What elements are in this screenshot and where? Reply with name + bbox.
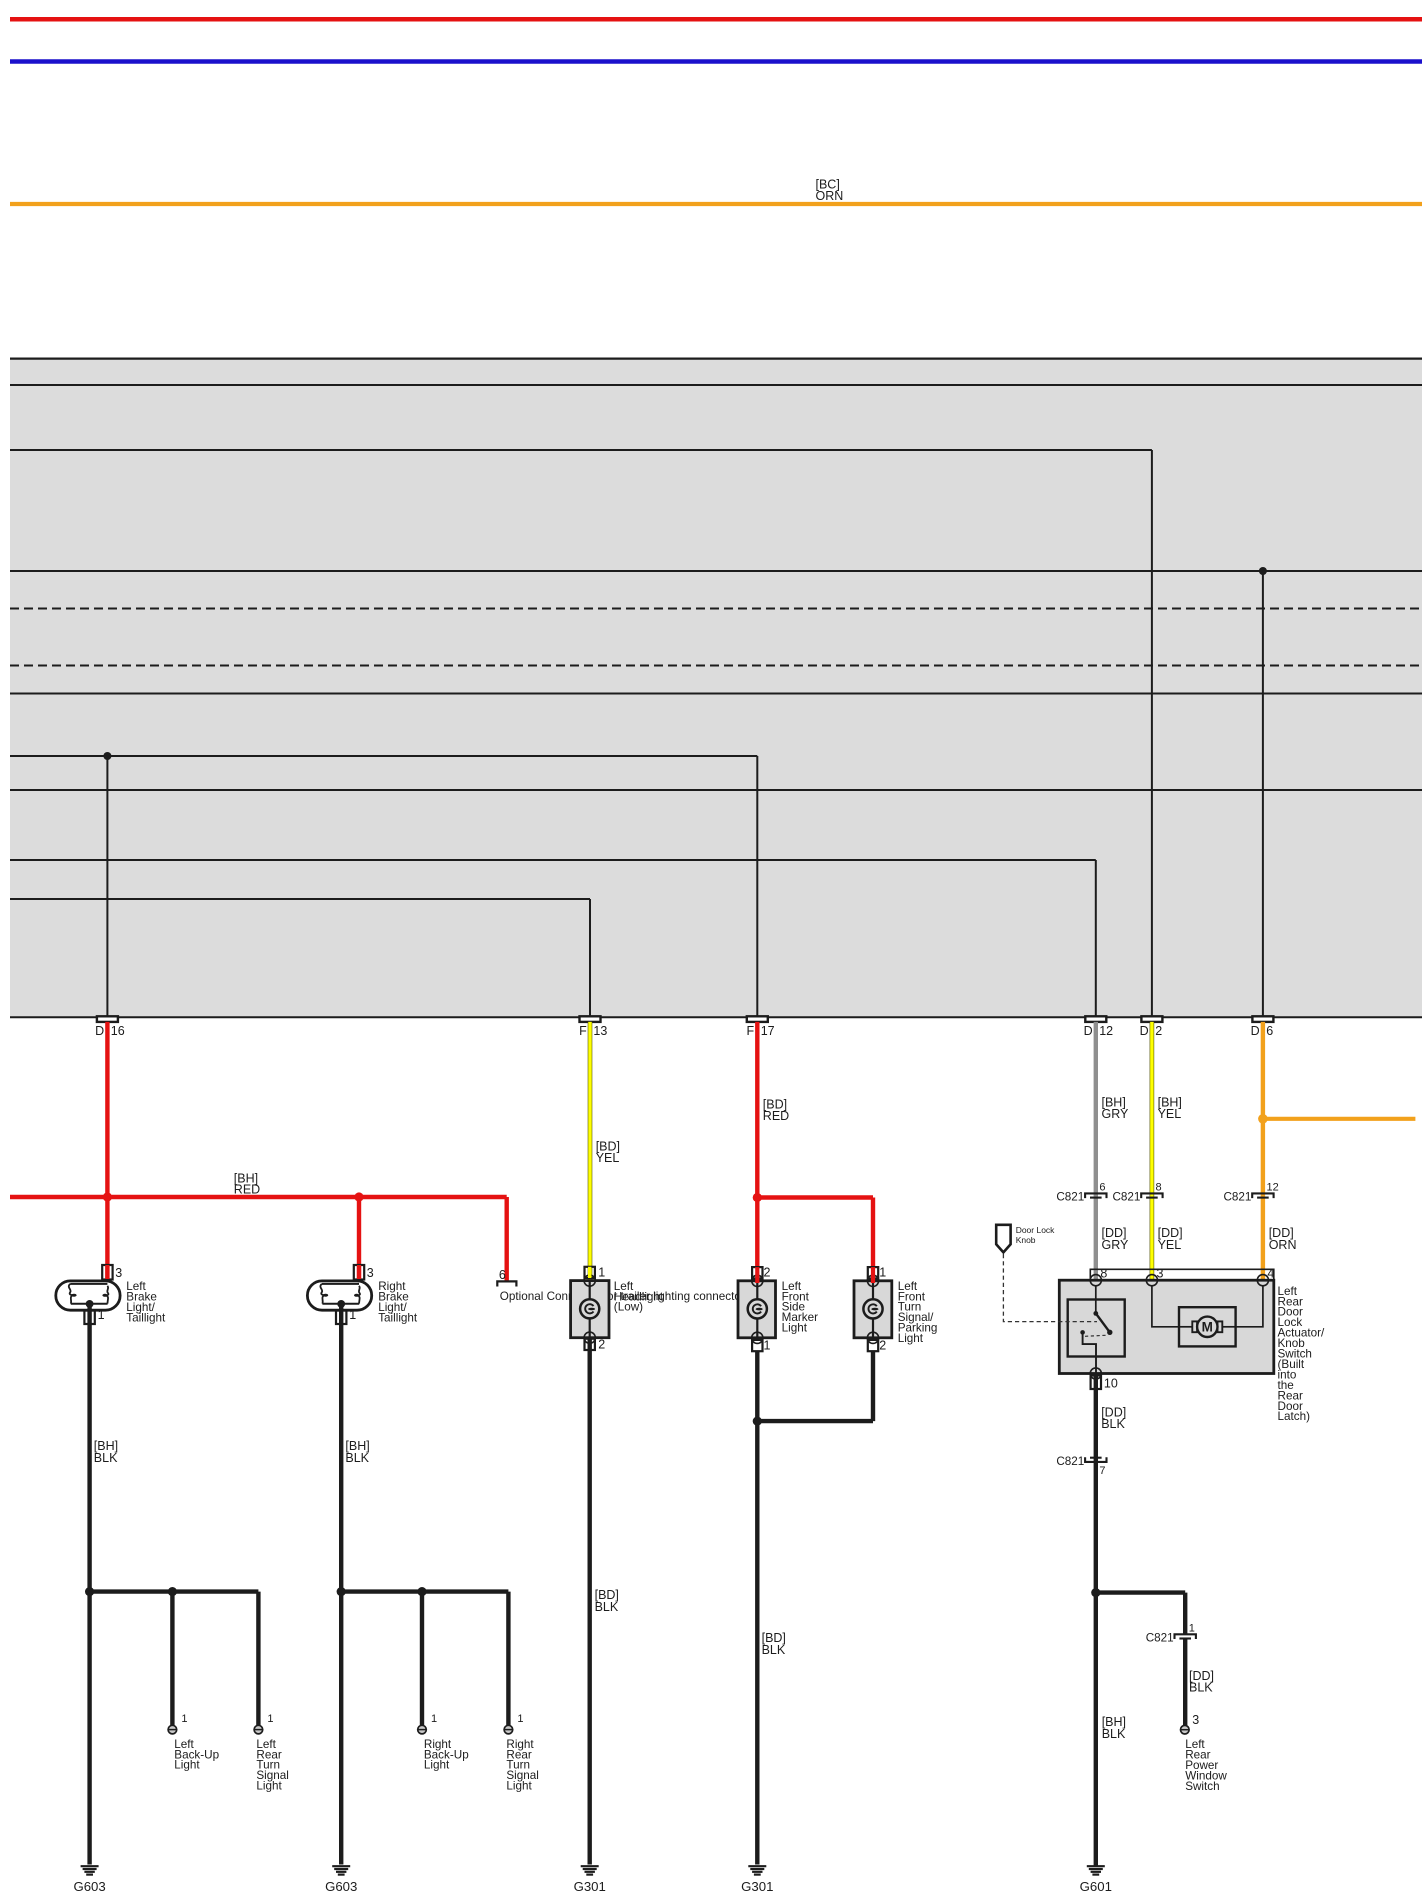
svg-text:1: 1 — [181, 1713, 187, 1725]
svg-text:7: 7 — [1099, 1465, 1105, 1477]
optional connector bracket — [497, 1268, 516, 1287]
svg-text:1: 1 — [1189, 1622, 1195, 1634]
junction red F17 — [753, 1193, 762, 1202]
net label [BD] YEL — [596, 1139, 620, 1165]
terminal left back-up light — [168, 1725, 177, 1734]
net label [BH] GRY — [1102, 1096, 1130, 1122]
wire black turn signal — [871, 1351, 875, 1421]
connector D6 — [1251, 1016, 1274, 1038]
bulb side marker — [748, 1299, 767, 1318]
wire pin3 to motor — [1152, 1286, 1179, 1327]
junction red at right brake — [354, 1192, 363, 1201]
wire yellow from F13 — [588, 1022, 593, 1280]
wire red to right brake light — [357, 1197, 361, 1286]
svg-text:Light: Light — [174, 1759, 200, 1772]
svg-text:1: 1 — [431, 1713, 437, 1725]
pin 3 right brake — [354, 1265, 364, 1280]
wire black window switch — [1183, 1639, 1187, 1726]
wire to F13 — [589, 899, 591, 1016]
wire band L2 — [10, 449, 1152, 451]
wire black right brake pin1 — [339, 1304, 343, 1865]
bulb turn signal — [863, 1299, 882, 1318]
junction band D6 — [1259, 567, 1267, 575]
net label [DD] BLK pin10 — [1101, 1406, 1126, 1432]
junction left back-up — [168, 1587, 177, 1596]
component door lock actuator box — [1059, 1280, 1274, 1373]
switch blade tip — [1107, 1330, 1112, 1335]
svg-text:2: 2 — [1155, 1024, 1162, 1038]
wire orange from D6 — [1261, 1022, 1265, 1280]
pin 2 side marker — [752, 1267, 762, 1278]
wire to right rear turn — [506, 1592, 510, 1726]
wire orange bus top — [10, 202, 1422, 206]
junction black right tree — [337, 1587, 346, 1596]
svg-text:1: 1 — [98, 1308, 105, 1322]
wire to right back-up light — [420, 1592, 424, 1726]
svg-text:RED: RED — [234, 1183, 260, 1197]
wire gray from D12 — [1094, 1022, 1098, 1280]
net label [BH] BLK left — [94, 1439, 118, 1465]
connector C821 pin8 — [1112, 1182, 1162, 1204]
ground G301 marker — [741, 1866, 773, 1894]
optional connector text — [500, 1290, 745, 1303]
wire band L4 dashed — [10, 608, 1422, 610]
svg-text:BLK: BLK — [1102, 1727, 1126, 1741]
component left headlight box — [571, 1281, 609, 1338]
svg-text:Knob: Knob — [1016, 1235, 1036, 1245]
svg-text:1: 1 — [879, 1265, 886, 1279]
lamp left brake light/taillight — [56, 1281, 120, 1310]
svg-text:6: 6 — [1266, 1024, 1273, 1038]
connector C821 pin7 — [1056, 1455, 1106, 1477]
svg-text:Light: Light — [898, 1332, 924, 1345]
connector D2 — [1140, 1016, 1163, 1038]
svg-text:YEL: YEL — [596, 1151, 620, 1165]
switch alternate position dashed — [1085, 1335, 1108, 1336]
svg-text:1: 1 — [598, 1265, 605, 1279]
svg-text:M: M — [1202, 1320, 1213, 1335]
svg-text:17: 17 — [761, 1024, 775, 1038]
wire red to turn signal pin1 — [871, 1198, 875, 1268]
net label [BH] BLK right — [345, 1439, 369, 1465]
terminal right rear turn signal light — [504, 1725, 513, 1734]
component turn signal label — [898, 1280, 938, 1345]
actuator connector strip — [1090, 1269, 1274, 1280]
svg-text:2: 2 — [764, 1265, 771, 1279]
terminal left rear turn signal light — [254, 1725, 263, 1734]
svg-text:ORN: ORN — [1269, 1238, 1297, 1252]
svg-text:D: D — [1084, 1024, 1093, 1038]
net label [BD] BLK headlight — [595, 1588, 619, 1614]
connector D12 — [1084, 1016, 1114, 1038]
pin 3 wire red — [105, 1265, 109, 1279]
knob linkage dashed — [1003, 1254, 1097, 1322]
svg-text:12: 12 — [1099, 1024, 1113, 1038]
svg-text:BLK: BLK — [762, 1643, 786, 1657]
wire black marker join — [757, 1419, 873, 1423]
pin 3 cavity — [1146, 1275, 1157, 1286]
connector C821 pin6 — [1056, 1182, 1106, 1204]
cavity bottom headlight — [584, 1332, 595, 1343]
cavity bottom turn signal — [867, 1332, 878, 1343]
svg-text:G603: G603 — [325, 1879, 357, 1894]
wire black branch to window switch — [1096, 1590, 1185, 1594]
svg-text:Light: Light — [782, 1322, 808, 1335]
svg-text:Latch): Latch) — [1278, 1410, 1311, 1423]
junction red at left brake — [103, 1192, 112, 1201]
net label [BH] BLK g601 — [1102, 1715, 1126, 1741]
connector F17 — [746, 1016, 774, 1038]
wire orange branch — [1263, 1117, 1416, 1121]
wire black side marker — [755, 1351, 759, 1864]
component side marker label — [782, 1280, 818, 1335]
wire band L7 — [10, 755, 757, 757]
svg-text:G603: G603 — [73, 1879, 105, 1894]
wire to D12 — [1095, 860, 1097, 1016]
wire to D2 — [1151, 450, 1153, 1016]
wire black headlight ground — [588, 1339, 592, 1865]
svg-text:F: F — [746, 1024, 754, 1038]
wire to left back-up light — [170, 1592, 174, 1726]
pin 10 box — [1091, 1376, 1101, 1390]
connector F13 — [579, 1016, 607, 1038]
lamp right brake light/taillight — [307, 1281, 371, 1310]
svg-text:1: 1 — [267, 1713, 273, 1725]
svg-text:C821: C821 — [1223, 1191, 1251, 1204]
svg-text:C821: C821 — [1112, 1191, 1140, 1204]
pin 1 right brake — [336, 1311, 346, 1325]
wire to D16 — [106, 756, 108, 1016]
wire black right tree — [341, 1589, 508, 1593]
svg-text:1: 1 — [764, 1339, 771, 1353]
svg-text:2: 2 — [598, 1338, 605, 1352]
cavity top side marker — [752, 1275, 763, 1286]
svg-text:6: 6 — [1099, 1182, 1105, 1194]
svg-text:G301: G301 — [741, 1879, 773, 1894]
pin 2 wire red — [755, 1267, 759, 1283]
cavity top turn signal — [867, 1275, 878, 1286]
svg-text:Switch: Switch — [1185, 1780, 1219, 1793]
junction right back-up — [417, 1587, 426, 1596]
svg-text:RED: RED — [763, 1109, 789, 1123]
wire yellow from D2 — [1150, 1022, 1155, 1280]
wire black left brake pin1 — [87, 1304, 91, 1865]
connector C821 pin1 — [1146, 1622, 1196, 1644]
wire to left rear turn — [256, 1592, 260, 1726]
switch left contact — [1080, 1330, 1085, 1335]
switch contact wire — [1083, 1334, 1096, 1374]
wire pin8 to pivot — [1095, 1286, 1097, 1314]
pin 1 wire yellow — [588, 1267, 591, 1278]
pin 1 headlight — [585, 1267, 595, 1278]
wire red from D16 — [105, 1022, 109, 1286]
wire pin4 to motor — [1236, 1286, 1263, 1327]
pin 1 wire red — [871, 1267, 875, 1283]
lamp left brake light/taillight label — [126, 1280, 166, 1324]
door lock knob — [996, 1225, 1055, 1253]
switch blade — [1096, 1313, 1110, 1332]
wire inside headlight — [589, 1281, 591, 1338]
component actuator label — [1278, 1285, 1326, 1423]
component left rear turn signal light — [256, 1738, 289, 1793]
wire blue bus top — [10, 59, 1422, 64]
motor M — [1179, 1307, 1236, 1346]
svg-text:Door Lock: Door Lock — [1016, 1225, 1055, 1235]
wire band L1 — [10, 384, 1422, 386]
pin 2 headlight — [585, 1339, 595, 1350]
svg-text:Light: Light — [256, 1780, 282, 1793]
net label [DD] BLK window — [1189, 1669, 1214, 1695]
net label [BC] ORN — [816, 177, 844, 203]
net label [DD] GRY — [1102, 1226, 1130, 1252]
svg-text:ORN: ORN — [816, 189, 844, 203]
wire red bus top — [10, 17, 1422, 22]
wire inside side marker — [756, 1281, 758, 1338]
junction g601 branch — [1091, 1588, 1100, 1597]
svg-text:YEL: YEL — [1158, 1238, 1182, 1252]
wire black to C821 pin1 — [1183, 1593, 1187, 1635]
svg-text:BLK: BLK — [1189, 1680, 1213, 1694]
cavity bottom side marker — [752, 1332, 763, 1343]
wire black left tree — [90, 1589, 259, 1593]
wire red bus BH — [10, 1195, 507, 1199]
component left rear power window switch — [1185, 1738, 1227, 1793]
cavity top headlight — [584, 1275, 595, 1286]
ground G603 left — [73, 1866, 105, 1894]
net label [BH] YEL — [1158, 1096, 1182, 1122]
svg-text:C821: C821 — [1056, 1455, 1084, 1468]
component left back-up light — [174, 1738, 219, 1772]
ground G601 — [1080, 1866, 1112, 1894]
svg-text:12: 12 — [1267, 1182, 1279, 1194]
svg-text:G301: G301 — [574, 1879, 606, 1894]
svg-text:C821: C821 — [1146, 1632, 1174, 1645]
svg-text:(Low): (Low) — [614, 1301, 643, 1314]
wire red branch to turn signal — [757, 1195, 873, 1199]
component side marker box — [738, 1281, 776, 1338]
wire band L5 dashed — [10, 665, 1422, 667]
pin 1 left brake — [84, 1311, 94, 1325]
junction orange branch — [1258, 1114, 1268, 1124]
harness band — [10, 359, 1422, 1018]
svg-text:C821: C821 — [1056, 1191, 1084, 1204]
net label [DD] YEL — [1158, 1226, 1183, 1252]
lamp right brake light/taillight label — [378, 1280, 418, 1324]
svg-text:Light: Light — [506, 1780, 532, 1793]
component right rear turn signal light — [506, 1738, 539, 1793]
wire to F17 — [756, 756, 758, 1016]
svg-text:D: D — [95, 1024, 104, 1038]
net label [BH] RED — [234, 1172, 260, 1197]
bulb left headlight — [580, 1299, 599, 1318]
svg-text:BLK: BLK — [94, 1451, 118, 1465]
connector D16 — [95, 1016, 125, 1038]
wire band L10 — [10, 898, 590, 900]
pin 8 cavity — [1090, 1275, 1101, 1286]
switch pivot — [1093, 1311, 1098, 1316]
ground G603 right — [325, 1866, 357, 1894]
pin 1 turn signal — [868, 1267, 878, 1278]
svg-text:D: D — [1140, 1024, 1149, 1038]
svg-text:16: 16 — [111, 1024, 125, 1038]
connector C821 pin12 — [1223, 1182, 1278, 1204]
pin 4 cavity — [1257, 1275, 1268, 1286]
svg-text:F: F — [579, 1024, 587, 1038]
wire red to optional connector — [505, 1197, 509, 1281]
svg-text:1: 1 — [349, 1308, 356, 1322]
svg-text:GRY: GRY — [1102, 1107, 1130, 1121]
pin 1 side marker — [752, 1340, 762, 1351]
pin 10 cavity — [1090, 1368, 1101, 1379]
wire band L3 — [10, 570, 1422, 572]
wire band L6 — [10, 693, 1422, 695]
ground G301 headlight — [574, 1866, 606, 1894]
wire black pin10 — [1094, 1376, 1098, 1867]
svg-text:BLK: BLK — [345, 1451, 369, 1465]
wire red from F17 — [755, 1022, 759, 1267]
svg-text:BLK: BLK — [595, 1600, 619, 1614]
svg-text:YEL: YEL — [1158, 1107, 1182, 1121]
component turn signal box — [854, 1281, 892, 1338]
knob switch square — [1068, 1300, 1125, 1357]
pin 3 left brake — [102, 1265, 112, 1280]
wire inside turn signal — [872, 1281, 874, 1338]
pin 2 turn signal — [868, 1340, 878, 1351]
component left headlight label — [614, 1280, 664, 1314]
wire to D6 — [1262, 571, 1264, 1016]
svg-text:Light: Light — [424, 1759, 450, 1772]
terminal window switch ground — [1181, 1725, 1190, 1734]
wire band L8 — [10, 789, 1422, 791]
pin 3 wire red — [357, 1265, 361, 1279]
svg-text:3: 3 — [115, 1266, 122, 1280]
svg-text:6: 6 — [499, 1268, 506, 1282]
net label [BD] RED — [763, 1098, 789, 1124]
wire band L9 — [10, 859, 1096, 861]
terminal right back-up light — [418, 1725, 427, 1734]
svg-text:GRY: GRY — [1102, 1238, 1130, 1252]
svg-text:Taillight: Taillight — [378, 1311, 418, 1324]
svg-text:2: 2 — [879, 1339, 886, 1353]
junction marker ground — [753, 1417, 762, 1426]
svg-text:13: 13 — [593, 1024, 607, 1038]
net label [DD] ORN — [1269, 1226, 1297, 1252]
svg-text:3: 3 — [367, 1266, 374, 1280]
svg-text:G601: G601 — [1080, 1879, 1112, 1894]
svg-text:D: D — [1251, 1024, 1260, 1038]
junction band D16 — [103, 752, 111, 760]
svg-text:BLK: BLK — [1101, 1417, 1125, 1431]
svg-text:10: 10 — [1104, 1376, 1118, 1390]
svg-text:1: 1 — [517, 1713, 523, 1725]
component right back-up light — [424, 1738, 469, 1772]
svg-text:8: 8 — [1156, 1182, 1162, 1194]
svg-text:Taillight: Taillight — [126, 1311, 166, 1324]
junction black left tree — [85, 1587, 94, 1596]
net label [BD] BLK marker — [762, 1631, 786, 1657]
svg-text:3: 3 — [1192, 1713, 1199, 1727]
